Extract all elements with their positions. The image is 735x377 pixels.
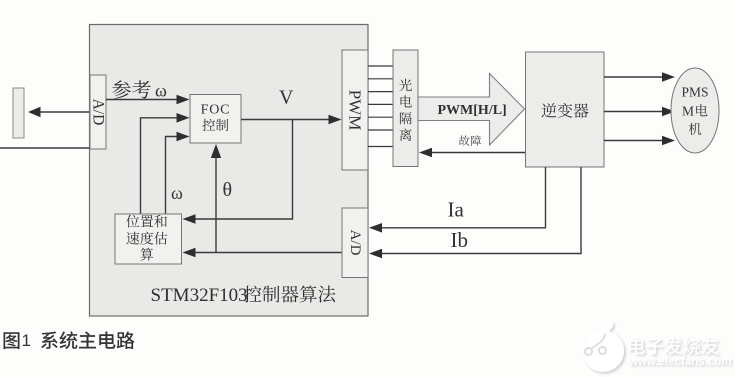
fault wire inverter to isolator <box>419 148 526 158</box>
wire theta up into FOC <box>211 144 221 253</box>
svg-text:PWM: PWM <box>346 90 365 131</box>
svg-text:M: M <box>682 104 694 119</box>
svg-text:θ: θ <box>223 179 233 201</box>
svg-text:FOC: FOC <box>201 103 231 118</box>
DAC output bar (left rectangle) <box>13 88 24 138</box>
wire Ia from inverter to A/D <box>369 167 546 233</box>
svg-text:1: 1 <box>22 331 31 350</box>
wire entering from left edge <box>0 147 90 149</box>
block A/D upper-left <box>90 75 107 149</box>
6 PWM signal wires to isolator <box>368 66 393 130</box>
svg-text:A/D: A/D <box>347 230 363 256</box>
big PWM[H/L] arrow <box>418 74 525 146</box>
svg-text:Ib: Ib <box>451 228 469 252</box>
label 故障 <box>459 135 481 146</box>
block PWM <box>342 50 368 170</box>
svg-text:ω: ω <box>171 183 183 203</box>
wire A/D currents into estimator <box>183 248 343 258</box>
svg-text:www.elecfans.com: www.elecfans.com <box>628 356 731 368</box>
label STM32F103控制器算法 <box>151 285 336 306</box>
svg-text:PWM[H/L]: PWM[H/L] <box>438 103 507 118</box>
block A/D lower <box>342 208 368 278</box>
watermark logo elecfans <box>583 321 731 372</box>
svg-text:Ia: Ia <box>448 198 465 222</box>
fault wire isolator to PWM <box>368 146 393 148</box>
block inverter 逆变器 <box>526 52 605 167</box>
block FOC 控制 <box>190 95 241 144</box>
svg-text:V: V <box>279 87 294 109</box>
wire V from FOC to PWM <box>241 115 342 125</box>
svg-text:ω: ω <box>155 81 167 101</box>
wire V feedback down into estimator <box>183 120 293 224</box>
block position and speed estimator 位置和速度估算 <box>115 214 182 264</box>
svg-text:A/D: A/D <box>90 99 107 126</box>
motor PMSM ellipse <box>671 68 719 153</box>
svg-text:PMS: PMS <box>681 85 708 100</box>
block opto isolator 光电隔离 <box>393 50 418 167</box>
wire estimator omega out to FOC input 2 <box>141 113 190 214</box>
3 phase wires inverter to motor <box>604 72 675 145</box>
label 参考ω <box>112 80 167 100</box>
svg-text:STM32F103: STM32F103 <box>151 285 248 306</box>
wire A/D to left bar with arrow <box>28 107 89 117</box>
main controller block STM32F103 <box>90 25 369 317</box>
wire reference speed into FOC <box>106 95 190 105</box>
wire Ib from inverter to A/D <box>369 167 581 258</box>
wire estimator out to FOC input 3 <box>166 132 190 214</box>
figure caption 图1 系统主电路 <box>4 331 135 350</box>
